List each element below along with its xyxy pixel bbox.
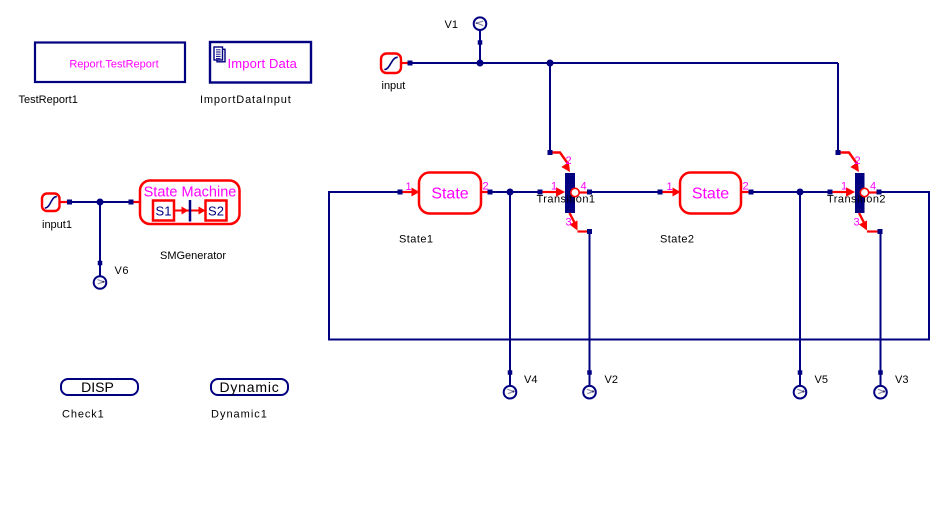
pin square input1 xyxy=(67,200,72,205)
pin square Transition1 output xyxy=(587,190,592,195)
pin square above V3 xyxy=(878,370,883,375)
svg-text:V6: V6 xyxy=(115,265,129,277)
svg-text:Check1: Check1 xyxy=(62,409,105,421)
component V2 sensor xyxy=(583,386,596,399)
arrow Transition2 top xyxy=(850,162,859,172)
svg-text:input1: input1 xyxy=(42,219,72,231)
arrow Transition1 bottom xyxy=(569,221,577,231)
component input1 source xyxy=(42,194,60,212)
svg-text:Dynamic1: Dynamic1 xyxy=(211,409,268,421)
arrow Transition1 top xyxy=(561,162,570,172)
pin square on V1 wire xyxy=(478,40,483,45)
svg-text:S2: S2 xyxy=(208,204,224,219)
svg-text:V1: V1 xyxy=(445,19,458,31)
svg-text:4: 4 xyxy=(581,181,587,193)
wire down to V6 xyxy=(99,202,101,277)
component SMGenerator box xyxy=(140,181,240,225)
svg-text:V2: V2 xyxy=(605,374,618,386)
state S1 xyxy=(153,201,174,221)
transition Transition2 bar xyxy=(855,173,865,213)
svg-text:4: 4 xyxy=(870,181,876,193)
wire down to V3 xyxy=(880,234,882,386)
pin square Transition2 input xyxy=(828,190,833,195)
svg-text:SMGenerator: SMGenerator xyxy=(160,250,226,262)
wire red elbow Transition1 top xyxy=(553,153,569,165)
wire red elbow Transition2 top xyxy=(841,153,858,165)
svg-text:3: 3 xyxy=(854,217,860,229)
pin square Transition2 bottom output xyxy=(878,229,883,234)
pin square above V5 xyxy=(798,370,803,375)
wire State2 to Transition2 xyxy=(754,191,828,193)
wire red stub State1 output xyxy=(481,191,488,193)
svg-text:3: 3 xyxy=(566,217,572,229)
arrow Transition2 bottom xyxy=(859,221,867,231)
pin square above V4 xyxy=(508,370,513,375)
wire red stub into SMGenerator xyxy=(134,201,141,203)
svg-text:V5: V5 xyxy=(815,374,828,386)
svg-text:State1: State1 xyxy=(399,234,434,246)
svg-text:Report.TestReport: Report.TestReport xyxy=(69,59,158,71)
wire red stub Transition1 output xyxy=(579,191,587,193)
transition Transition1 bar xyxy=(565,173,575,213)
pin square Transition2 top xyxy=(836,150,841,155)
svg-text:State2: State2 xyxy=(660,234,695,246)
pin square input xyxy=(408,61,413,66)
arrow mid xyxy=(182,207,189,215)
wire State1 to Transition1 xyxy=(493,191,538,193)
svg-text:1: 1 xyxy=(406,181,412,193)
wire down to V4 xyxy=(509,194,511,386)
component TestReport1 box xyxy=(35,43,185,83)
svg-text:Import Data: Import Data xyxy=(228,56,298,71)
transition tick xyxy=(189,200,192,222)
junction input1 xyxy=(97,199,104,206)
component Check1 box xyxy=(61,379,138,395)
component State1 box xyxy=(419,173,481,214)
svg-text:2: 2 xyxy=(743,181,749,193)
svg-text:S1: S1 xyxy=(156,204,172,219)
svg-text:input: input xyxy=(382,80,406,92)
wire red stub State1 input xyxy=(403,191,413,193)
wire S1 to S2 xyxy=(174,210,204,212)
svg-text:TestReport1: TestReport1 xyxy=(19,94,78,106)
svg-text:Transition1: Transition1 xyxy=(537,194,596,206)
component V3 sensor xyxy=(874,386,887,399)
svg-text:State Machine: State Machine xyxy=(144,185,237,201)
pin square above V2 xyxy=(587,370,592,375)
svg-text:Transition2: Transition2 xyxy=(827,194,886,206)
svg-text:Dynamic: Dynamic xyxy=(219,379,279,395)
component ImportDataInput box xyxy=(210,42,311,83)
pin square State1 input xyxy=(398,190,403,195)
wire red to bottom square xyxy=(578,230,588,232)
component V4 sensor xyxy=(504,386,517,399)
svg-text:V4: V4 xyxy=(524,374,537,386)
svg-text:2: 2 xyxy=(566,155,572,167)
junction V5 tap xyxy=(797,189,804,196)
wire red stub Transition2 output xyxy=(869,191,877,193)
wire red Transition2 bottom xyxy=(859,213,866,227)
wire V1 to bus xyxy=(479,30,481,63)
arrow into State2 xyxy=(673,188,681,197)
arrow into Transition2 xyxy=(846,187,855,196)
component V1 sensor xyxy=(474,17,487,30)
svg-text:2: 2 xyxy=(855,155,861,167)
wire down to V2 xyxy=(589,234,591,386)
wire input1 to SMGenerator xyxy=(72,201,129,203)
pin square Transition1 input xyxy=(538,190,543,195)
state S2 xyxy=(206,201,227,221)
wire input stub xyxy=(401,62,408,64)
junction V4 tap xyxy=(507,189,514,196)
wire top horizontal xyxy=(413,62,839,64)
component Dynamic1 box xyxy=(211,379,288,395)
component V5 sensor xyxy=(794,386,807,399)
priority circle Transition1 xyxy=(571,188,579,196)
pin square Transition1 top xyxy=(548,150,553,155)
wire down to V5 xyxy=(799,194,801,386)
component input source xyxy=(381,54,401,74)
wire drop to Transition2 xyxy=(837,63,839,151)
wire red to bottom square xyxy=(867,230,878,232)
svg-text:V3: V3 xyxy=(895,374,908,386)
wire red into Transition2 xyxy=(833,191,848,193)
pin square State2 input xyxy=(658,190,663,195)
arrow into State1 xyxy=(412,188,420,197)
priority circle Transition2 xyxy=(860,188,868,196)
wire input1 stub xyxy=(60,201,68,203)
pin square SMGenerator input xyxy=(129,200,134,205)
wire Transition1 to State2 xyxy=(592,191,658,193)
arrow into Transition1 xyxy=(556,187,565,196)
wire red stub State2 output xyxy=(741,191,749,193)
junction under V1 xyxy=(477,60,484,67)
component V6 sensor xyxy=(94,276,107,289)
svg-text:1: 1 xyxy=(551,181,557,193)
pin square Transition1 bottom output xyxy=(587,229,592,234)
svg-text:DISP: DISP xyxy=(81,379,114,395)
wire feedback loop xyxy=(329,192,929,340)
component State2 box xyxy=(680,173,741,214)
wire drop to Transition1 xyxy=(549,63,551,151)
svg-text:ImportDataInput: ImportDataInput xyxy=(200,94,292,106)
pin square above V6 xyxy=(98,261,103,266)
svg-text:State: State xyxy=(431,186,468,203)
pin square State1 output xyxy=(488,190,493,195)
svg-text:1: 1 xyxy=(667,181,673,193)
svg-text:State: State xyxy=(692,186,729,203)
pin square Transition2 output xyxy=(877,190,882,195)
wire red into Transition1 xyxy=(543,191,558,193)
wire red stub State2 input xyxy=(663,191,674,193)
junction mid bus xyxy=(547,60,554,67)
pin square State2 output xyxy=(749,190,754,195)
icon import pages xyxy=(214,47,225,62)
wire red Transition1 bottom xyxy=(570,213,577,227)
arrow into S2 xyxy=(199,207,206,215)
svg-text:1: 1 xyxy=(841,181,847,193)
